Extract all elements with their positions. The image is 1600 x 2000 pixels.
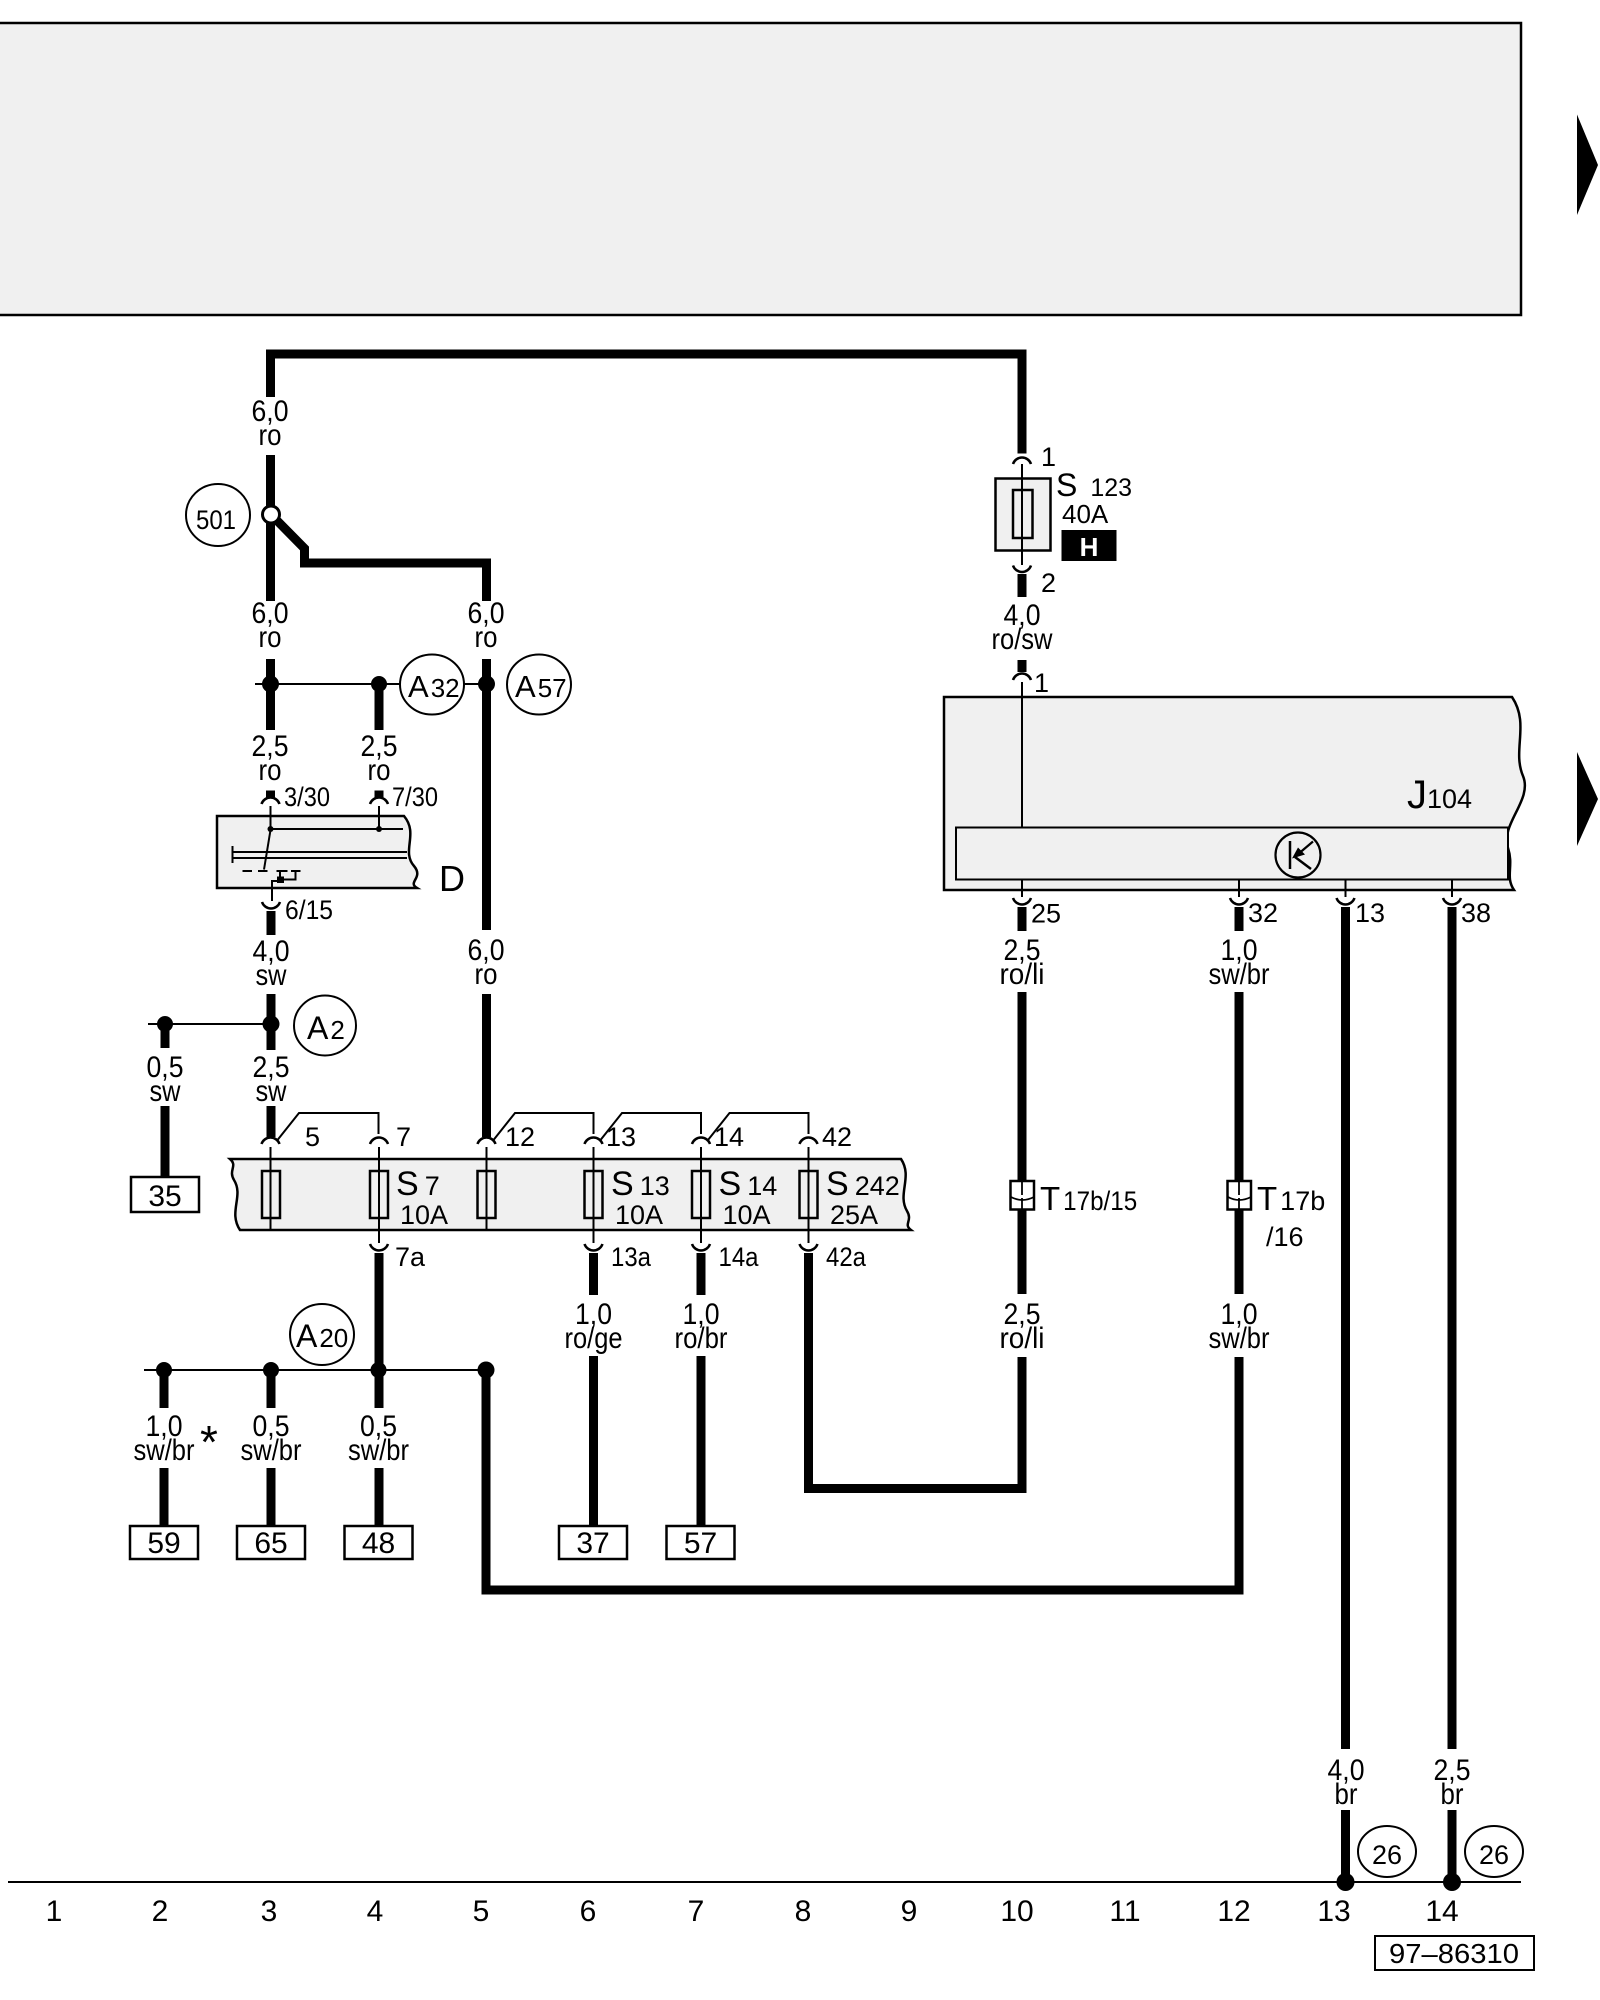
- fuse panel pin 42 lead: [808, 1147, 810, 1243]
- svg-text:59: 59: [147, 1527, 180, 1560]
- svg-text:25A: 25A: [830, 1200, 878, 1230]
- pin 13 plug: [585, 1138, 603, 1144]
- bridge 13 to 14: [601, 1113, 702, 1140]
- svg-text:ro/ge: ro/ge: [565, 1322, 623, 1355]
- svg-text:14a: 14a: [719, 1242, 760, 1272]
- marker H: [1062, 530, 1117, 561]
- D movable contact: [264, 830, 271, 870]
- svg-text:sw: sw: [256, 959, 287, 992]
- direction arrow right middle: [1577, 752, 1598, 846]
- pin D 7/30 plug: [370, 798, 388, 804]
- svg-text:65: 65: [254, 1527, 287, 1560]
- svg-text:A2: A2: [307, 1010, 345, 1046]
- wire 1,0 sw/br left stub: [160, 1376, 169, 1408]
- wire 1,0 ro/br fuse 14a stub: [697, 1253, 706, 1295]
- pin 12 plug: [478, 1138, 496, 1144]
- wire 2,5 ro/li J104-25 stub: [1018, 907, 1027, 931]
- wire 2,5 ro/li to T17b/15: [1018, 992, 1027, 1181]
- pin S123-1 plug: [1013, 458, 1031, 464]
- pin 14a plug: [692, 1244, 710, 1250]
- node A32 junction line: [255, 683, 487, 685]
- svg-text:sw/br: sw/br: [1209, 1322, 1270, 1355]
- pin J104-1 plug: [1013, 674, 1031, 680]
- svg-text:11: 11: [1109, 1895, 1140, 1928]
- wire 2,5 sw to fuse pin 5: [267, 1106, 276, 1137]
- fuse panel pin 5 lead: [270, 1147, 272, 1230]
- wire 1,0 ro/ge to ground 37: [589, 1356, 598, 1526]
- svg-text:10: 10: [1000, 1895, 1033, 1928]
- D pin 3/30 lead: [270, 806, 272, 828]
- svg-text:501: 501: [196, 505, 236, 535]
- svg-text:sw: sw: [150, 1075, 181, 1108]
- wire 6,0 ro to junction A32: [266, 659, 275, 730]
- D pin 6/15 lead: [272, 881, 277, 901]
- node A32 dot b: [371, 676, 387, 692]
- fuse element pos 5: [262, 1171, 280, 1218]
- connector T17b/16: [1228, 1180, 1326, 1252]
- svg-text:A20: A20: [296, 1318, 348, 1354]
- svg-text:S242: S242: [826, 1165, 900, 1203]
- wire sw/br to A20 junction: [486, 1357, 1239, 1590]
- connector arcs (plug symbols): [262, 458, 1462, 1251]
- wire switch diagonal at 501: [273, 516, 305, 559]
- pin J104-32 plug: [1230, 898, 1248, 904]
- svg-text:37: 37: [576, 1527, 609, 1560]
- D internal node dots: [268, 826, 274, 832]
- svg-text:ro: ro: [259, 419, 282, 452]
- svg-text:S123: S123: [1056, 467, 1132, 503]
- fuse S242 element: [800, 1171, 818, 1218]
- svg-text:sw/br: sw/br: [348, 1434, 409, 1467]
- svg-text:26: 26: [1479, 1840, 1509, 1870]
- wire 2,5 ro to D 7/30: [375, 791, 384, 799]
- fuse panel pin 12 lead: [486, 1147, 488, 1230]
- pin 42 plug: [800, 1138, 818, 1144]
- node label A20: [290, 1304, 354, 1365]
- D barrel lines: [233, 852, 408, 858]
- svg-text:ro: ro: [259, 754, 282, 787]
- fuse S14 element: [692, 1171, 710, 1218]
- wire 1,0 sw/br to T17b/16: [1235, 992, 1244, 1181]
- D key contact symbols: [277, 871, 301, 880]
- node A32 dot a: [262, 676, 279, 693]
- ignition/starter switch D: [217, 806, 465, 901]
- bridge 5 to 7: [278, 1113, 379, 1140]
- svg-text:35: 35: [148, 1180, 181, 1213]
- relay J104 (ABS control unit): [944, 682, 1525, 897]
- ground box 48: [345, 1526, 413, 1560]
- pin D 3/30 plug: [262, 798, 280, 804]
- connector T17b/15: [1011, 1180, 1138, 1217]
- wire 2,5 br J104-38: [1448, 907, 1457, 1749]
- svg-text:42a: 42a: [826, 1242, 867, 1272]
- wire 6,0 ro branch to A57: [300, 563, 487, 601]
- svg-text:13a: 13a: [611, 1242, 652, 1272]
- wire 0,5 sw stub: [161, 1030, 170, 1048]
- node A20 dot a: [156, 1362, 172, 1378]
- wire 2,5 br to ground 26: [1448, 1810, 1457, 1882]
- svg-text:10A: 10A: [723, 1200, 771, 1230]
- drawing number box 97-86310: [1375, 1936, 1534, 1970]
- svg-text:57: 57: [684, 1527, 717, 1560]
- ground joint track14: [1443, 1873, 1461, 1891]
- wire 2,5 ro stub from A32 junction: [375, 684, 384, 730]
- svg-text:7: 7: [688, 1895, 705, 1928]
- J104 pin1 internal lead: [1021, 682, 1023, 828]
- svg-text:sw/br: sw/br: [241, 1434, 302, 1467]
- wire 4,0 br to ground 26: [1341, 1810, 1350, 1882]
- svg-text:13: 13: [1355, 898, 1385, 928]
- wire 2,5 ro/li below T17b/15: [1018, 1210, 1027, 1294]
- svg-text:sw/br: sw/br: [134, 1434, 195, 1467]
- svg-text:7: 7: [396, 1122, 411, 1152]
- reference circle 501: [186, 484, 250, 546]
- ground box 59: [130, 1526, 198, 1560]
- svg-text:97–86310: 97–86310: [1389, 1938, 1519, 1969]
- ground box 65: [237, 1526, 305, 1560]
- fuse element pos 12: [478, 1171, 496, 1218]
- svg-text:br: br: [1335, 1778, 1358, 1811]
- wire 0,5 sw/br mid stub: [267, 1376, 276, 1408]
- wire 4,0 br J104-13: [1341, 907, 1350, 1749]
- wire 0,5 sw/br to ground 48: [375, 1468, 384, 1526]
- pin J104-25 plug: [1013, 898, 1031, 904]
- svg-text:3/30: 3/30: [284, 782, 330, 812]
- svg-text:38: 38: [1461, 898, 1491, 928]
- svg-text:7a: 7a: [395, 1242, 426, 1272]
- svg-text:48: 48: [362, 1527, 395, 1560]
- pin 7 plug: [370, 1138, 388, 1144]
- svg-text:ro/li: ro/li: [1000, 1322, 1045, 1355]
- svg-text:ro/br: ro/br: [675, 1322, 728, 1355]
- bridge 12 to 13: [494, 1113, 594, 1140]
- wire 30-feed top rail 6,0 ro: [271, 354, 1023, 454]
- wire 6,0 ro A57 down: [482, 659, 491, 930]
- fuse panel strip: [230, 1113, 911, 1243]
- fuse panel pin 14 lead: [700, 1147, 702, 1243]
- svg-text:ro: ro: [368, 754, 391, 787]
- fuse panel pin 13 lead: [593, 1147, 595, 1243]
- svg-text:6: 6: [580, 1895, 597, 1928]
- svg-text:7/30: 7/30: [392, 782, 438, 812]
- svg-text:1: 1: [46, 1895, 63, 1928]
- node A2 junction line: [148, 1023, 271, 1025]
- svg-text:*: *: [200, 1416, 218, 1468]
- wire 6,0 ro below node 501: [266, 523, 275, 601]
- pin J104-38 plug: [1443, 898, 1461, 904]
- svg-text:2: 2: [1041, 568, 1056, 598]
- svg-text:ro: ro: [475, 958, 498, 991]
- ground symbol 26 (track14): [1465, 1826, 1523, 1877]
- relay contact symbol K: [1276, 833, 1321, 878]
- wire 0,5 sw to ground 35: [161, 1106, 170, 1177]
- node A20 junction line: [144, 1369, 486, 1371]
- wire 4,0 ro/sw to J104 pin1: [1018, 660, 1027, 672]
- wire 6,0 ro upper segment below label: [266, 455, 275, 506]
- svg-text:32: 32: [1248, 898, 1278, 928]
- wire 0,5 sw/br fuse 7a down: [375, 1253, 384, 1408]
- wire ro/sw S123-2 stub: [1018, 574, 1027, 597]
- ground box 37: [559, 1526, 627, 1560]
- svg-text:A32: A32: [408, 669, 460, 704]
- svg-text:12: 12: [505, 1122, 535, 1152]
- svg-text:13: 13: [1317, 1895, 1350, 1928]
- svg-text:sw/br: sw/br: [1209, 958, 1270, 991]
- wire 1,0 sw/br to ground 59: [160, 1468, 169, 1526]
- J104 internal rect: [956, 828, 1508, 880]
- pin J104-13 plug: [1337, 898, 1355, 904]
- D internal bus: [271, 828, 404, 830]
- svg-text:13: 13: [606, 1122, 636, 1152]
- fuse S13 element: [585, 1171, 603, 1218]
- svg-text:S14: S14: [719, 1165, 778, 1203]
- ground rail: [8, 1881, 1521, 1883]
- node label A32: [400, 655, 464, 715]
- node A20 dot d: [478, 1362, 495, 1379]
- ground box 35: [131, 1177, 199, 1213]
- node 501 open junction: [263, 506, 280, 523]
- svg-text:26: 26: [1372, 1840, 1402, 1870]
- bridge 14 to 42: [708, 1113, 809, 1140]
- D barrel end bar: [232, 846, 234, 863]
- pin D 6/15 plug: [262, 902, 280, 908]
- node A2 dot a: [157, 1016, 173, 1032]
- svg-text:14: 14: [1425, 1895, 1458, 1928]
- node A2 dot b: [263, 1016, 280, 1033]
- svg-text:6/15: 6/15: [285, 895, 333, 925]
- D pin 7/30 lead: [378, 806, 380, 829]
- svg-text:S7: S7: [396, 1165, 440, 1203]
- header band: [0, 23, 1521, 315]
- wire 2,5 ro to D 3/30: [266, 791, 275, 799]
- svg-text:ro/sw: ro/sw: [992, 623, 1053, 656]
- fuse S7 element: [370, 1171, 388, 1218]
- ground joint track13: [1337, 1873, 1355, 1891]
- svg-text:ro: ro: [475, 621, 498, 654]
- wire 1,0 sw/br J104-32 stub: [1235, 907, 1244, 931]
- node A20 dot b: [263, 1362, 279, 1378]
- pin 42a plug: [800, 1244, 818, 1250]
- pin 13a plug: [585, 1244, 603, 1250]
- ground symbol 26 (track13): [1358, 1826, 1416, 1877]
- svg-text:T17b: T17b: [1257, 1180, 1325, 1217]
- node label A2: [294, 996, 356, 1056]
- node A20 dot c: [371, 1362, 387, 1378]
- fuse panel pin 7 lead: [378, 1147, 380, 1243]
- svg-text:S13: S13: [611, 1165, 670, 1203]
- svg-text:10A: 10A: [400, 1200, 448, 1230]
- svg-text:D: D: [439, 858, 465, 899]
- svg-text:ro: ro: [259, 621, 282, 654]
- node label A57: [507, 655, 571, 715]
- pin S123-2 plug: [1013, 566, 1031, 572]
- svg-text:5: 5: [473, 1895, 490, 1928]
- fuse S123 40A: [996, 464, 1133, 565]
- node A32 dot c: [478, 676, 495, 693]
- svg-text:T17b/15: T17b/15: [1040, 1180, 1137, 1217]
- svg-text:sw: sw: [256, 1075, 287, 1108]
- svg-text:ro/li: ro/li: [1000, 958, 1045, 991]
- svg-text:H: H: [1080, 532, 1099, 562]
- direction arrow top right: [1577, 115, 1598, 216]
- D dashed actuation line: [243, 870, 268, 872]
- wire 2,5 ro/li from S242 42a: [809, 1253, 1023, 1489]
- wire 0,5 sw/br to ground 65: [267, 1468, 276, 1526]
- svg-text:1: 1: [1041, 442, 1056, 472]
- wire 4,0 sw D 6/15 down: [267, 911, 276, 935]
- svg-text:4: 4: [367, 1895, 384, 1928]
- svg-text:10A: 10A: [615, 1200, 663, 1230]
- svg-text:br: br: [1441, 1778, 1464, 1811]
- pin 7a plug: [370, 1244, 388, 1250]
- ground box 57: [667, 1526, 735, 1560]
- svg-text:A57: A57: [515, 669, 567, 704]
- wire 1,0 sw/br below T17b/16: [1235, 1210, 1244, 1294]
- svg-text:9: 9: [901, 1895, 918, 1928]
- svg-text:40A: 40A: [1062, 499, 1109, 529]
- svg-text:5: 5: [305, 1122, 320, 1152]
- pin 5 plug: [262, 1138, 280, 1144]
- svg-text:12: 12: [1217, 1895, 1250, 1928]
- wire 1,0 ro/br to ground 57: [697, 1356, 706, 1526]
- svg-text:2: 2: [152, 1895, 169, 1928]
- pin 14 plug: [692, 1138, 710, 1144]
- svg-text:3: 3: [261, 1895, 278, 1928]
- track numbers 1-14: [46, 1895, 1459, 1928]
- wire 1,0 ro/ge fuse 13a stub: [589, 1253, 598, 1295]
- wire 6,0 ro to fuse pin 12: [482, 994, 491, 1137]
- svg-text:42: 42: [822, 1122, 852, 1152]
- wire 4,0 sw to A2 junction: [267, 994, 276, 1050]
- svg-text:14: 14: [714, 1122, 744, 1152]
- svg-text:1: 1: [1034, 668, 1049, 698]
- svg-text:8: 8: [795, 1895, 812, 1928]
- J104 pin internal leads bottom: [1022, 880, 1452, 898]
- thin connection lines: [8, 684, 1521, 1882]
- svg-text:25: 25: [1031, 899, 1061, 929]
- svg-text:/16: /16: [1266, 1222, 1304, 1252]
